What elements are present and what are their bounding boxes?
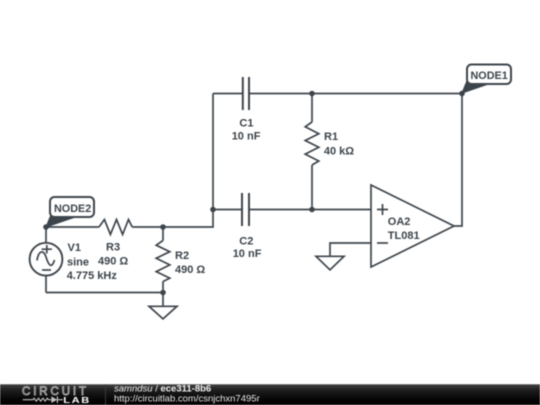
wire middle net lead from junction into C2 (213, 209, 242, 211)
svg-text:OA2: OA2 (388, 216, 411, 228)
footer separator (105, 384, 107, 405)
wire right vertical from NODE1 down to op-amp output (454, 94, 462, 227)
label OA2 value (388, 216, 420, 242)
logo diode (51, 396, 63, 403)
svg-text:NODE1: NODE1 (471, 70, 508, 82)
junction dot middle-left (210, 207, 216, 213)
svg-text:V1: V1 (68, 242, 81, 254)
ground (op-amp inverting input) (316, 256, 344, 270)
label R3 value (98, 242, 128, 268)
node NODE1 flag (461, 65, 511, 95)
label V1 value (67, 242, 118, 282)
footer bar (0, 384, 540, 405)
junction dot NODE2 (43, 224, 49, 230)
svg-text:LAB: LAB (63, 396, 91, 405)
svg-text:10 nF: 10 nF (233, 248, 262, 260)
wire stub from bottom junction to ground (162, 293, 164, 307)
svg-text:R2: R2 (175, 250, 189, 262)
ground (below R2) (149, 306, 177, 319)
svg-text:10 nF: 10 nF (232, 130, 261, 142)
wire middle net from C2 to op-amp + input (249, 209, 371, 211)
junction dot NODE1 (459, 91, 465, 97)
svg-text:490 Ω: 490 Ω (98, 256, 128, 268)
resistor R3 (46, 220, 163, 235)
junction dot bottom of R1 (309, 207, 315, 213)
svg-text:sine: sine (67, 256, 89, 268)
node NODE2 flag (45, 197, 94, 228)
svg-text:NODE2: NODE2 (54, 203, 91, 215)
wire bottom net from V1 to R2 bottom (46, 292, 163, 294)
svg-text:TL081: TL081 (388, 230, 420, 242)
junction dot bottom (160, 290, 166, 296)
label R1 value (324, 131, 354, 158)
resistor R1 (305, 94, 319, 210)
wire top net from C1 to NODE1 corner (249, 93, 462, 95)
capacitor C1 (243, 77, 249, 110)
svg-text:http://circuitlab.com/csnjchxn: http://circuitlab.com/csnjchxn7495r (114, 393, 260, 404)
op-amp OA2 (371, 185, 454, 267)
wire op-amp inverting input to ground (330, 243, 371, 256)
svg-text:4.775 kHz: 4.775 kHz (67, 270, 118, 282)
svg-text:C2: C2 (239, 235, 253, 247)
wire top net left lead into C1 (213, 93, 242, 95)
voltage source V1 (30, 227, 63, 293)
svg-text:40 kΩ: 40 kΩ (324, 146, 354, 158)
svg-text:R3: R3 (106, 242, 120, 254)
logo resistor zigzag (23, 398, 51, 401)
svg-text:R1: R1 (324, 131, 338, 143)
wire from R3/R2 junction right and up to top-left corner of C1 net (163, 94, 213, 228)
junction dot R3/R2 (160, 224, 166, 230)
label R2 value (175, 250, 205, 276)
junction dot top of R1 (309, 91, 315, 97)
capacitor C2 (242, 193, 249, 226)
svg-text:C1: C1 (239, 117, 253, 129)
resistor R2 (156, 227, 170, 293)
label C1 value (232, 117, 261, 142)
svg-text:490 Ω: 490 Ω (175, 264, 205, 276)
label C2 value (233, 235, 262, 260)
